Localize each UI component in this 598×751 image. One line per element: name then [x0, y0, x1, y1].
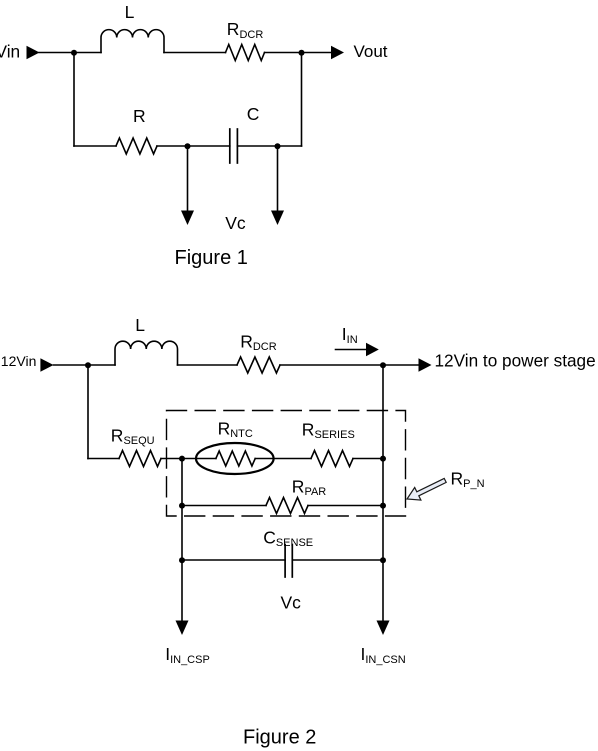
- 12Vin to power stage arrow: [419, 358, 432, 371]
- wire left bottom branch to resistor R: [74, 145, 116, 147]
- 12Vin input arrow: [40, 358, 53, 371]
- Vout output arrow: [331, 46, 344, 59]
- svg-text:R: R: [133, 106, 146, 126]
- IIN_CSN arrowhead: [377, 621, 390, 636]
- resistor RPAR: [266, 498, 308, 514]
- wire RDCR to power stage arrow: [280, 364, 419, 366]
- capacitor CSENSE plates: [284, 545, 286, 578]
- node right of C junction dot: [275, 143, 281, 149]
- resistor RSERIES: [311, 451, 353, 467]
- Vout node junction dot: [299, 50, 305, 56]
- svg-text:Vout: Vout: [354, 42, 388, 61]
- RSERIES right node junction dot: [380, 456, 386, 462]
- wire Vin input to node A: [39, 52, 101, 54]
- wire RPAR left lead: [182, 505, 266, 507]
- node A junction dot: [71, 50, 77, 56]
- svg-text:Figure 1: Figure 1: [175, 247, 248, 269]
- CSENSE right node junction dot: [380, 557, 386, 563]
- svg-text:Vin: Vin: [0, 41, 20, 61]
- svg-text:Vc: Vc: [281, 593, 302, 613]
- wire RPAR right lead: [308, 505, 383, 507]
- wire RDCR to Vout node: [265, 52, 332, 54]
- RNTC left node junction dot: [179, 456, 185, 462]
- Vc left arrowhead: [181, 211, 194, 226]
- wire Vc left arrow shaft: [187, 146, 189, 212]
- wire Vc right arrow shaft: [277, 146, 279, 212]
- wire RSERIES to right vertical: [353, 458, 383, 460]
- wire right vertical (Vout node down): [301, 53, 303, 147]
- wire CSENSE right lead: [292, 559, 383, 561]
- svg-text:L: L: [125, 2, 135, 22]
- wire left inner vertical: [181, 459, 183, 622]
- wire node B down to RSEQU branch: [87, 365, 89, 459]
- resistor RSEQU: [119, 451, 161, 467]
- dashed box RP_N network: [167, 411, 406, 517]
- svg-text:C: C: [247, 104, 260, 124]
- svg-text:12Vin: 12Vin: [1, 353, 37, 369]
- wire node A down to R branch: [73, 53, 75, 147]
- wire corner to RSEQU: [88, 458, 119, 460]
- resistor RDCR (Figure 1): [226, 45, 265, 61]
- svg-text:Vc: Vc: [225, 213, 246, 233]
- svg-text:L: L: [135, 315, 145, 335]
- resistor R (Figure 1): [116, 138, 157, 154]
- resistor RNTC: [216, 451, 255, 466]
- wire RSEQU to RNTC: [161, 458, 216, 460]
- Vin input arrow: [27, 46, 40, 59]
- node between R and C junction dot: [185, 143, 191, 149]
- wire R to capacitor C: [157, 145, 230, 147]
- svg-text:Figure 2: Figure 2: [243, 727, 316, 749]
- IIN arrowhead: [366, 343, 379, 357]
- wire C to right vertical: [237, 145, 301, 147]
- inductor L (Figure 1): [101, 30, 164, 53]
- wire CSENSE left lead: [182, 559, 285, 561]
- RP_N callout arrow: [407, 478, 446, 500]
- capacitor C plates (Figure 1): [229, 129, 231, 163]
- RPAR right node junction dot: [380, 503, 386, 509]
- resistor RDCR (Figure 2): [237, 357, 280, 373]
- CSENSE left node junction dot: [179, 557, 185, 563]
- RPAR left node junction dot: [179, 503, 185, 509]
- wire L to RDCR: [164, 52, 226, 54]
- RNTC thermistor ellipse: [196, 443, 274, 474]
- Vc right arrowhead: [271, 211, 284, 226]
- wire 12Vin input to node B: [54, 364, 116, 366]
- wire L to RDCR (Figure 2): [178, 364, 238, 366]
- IIN_CSP arrowhead: [176, 621, 189, 636]
- inductor L (Figure 2): [115, 341, 178, 365]
- IIN arrow line: [336, 349, 367, 351]
- node B junction dot: [85, 362, 91, 368]
- wire right main vertical: [382, 365, 384, 621]
- wire RNTC to RSERIES: [255, 458, 311, 460]
- svg-text:12Vin to power stage: 12Vin to power stage: [435, 350, 596, 370]
- IIN node junction dot: [380, 362, 386, 368]
